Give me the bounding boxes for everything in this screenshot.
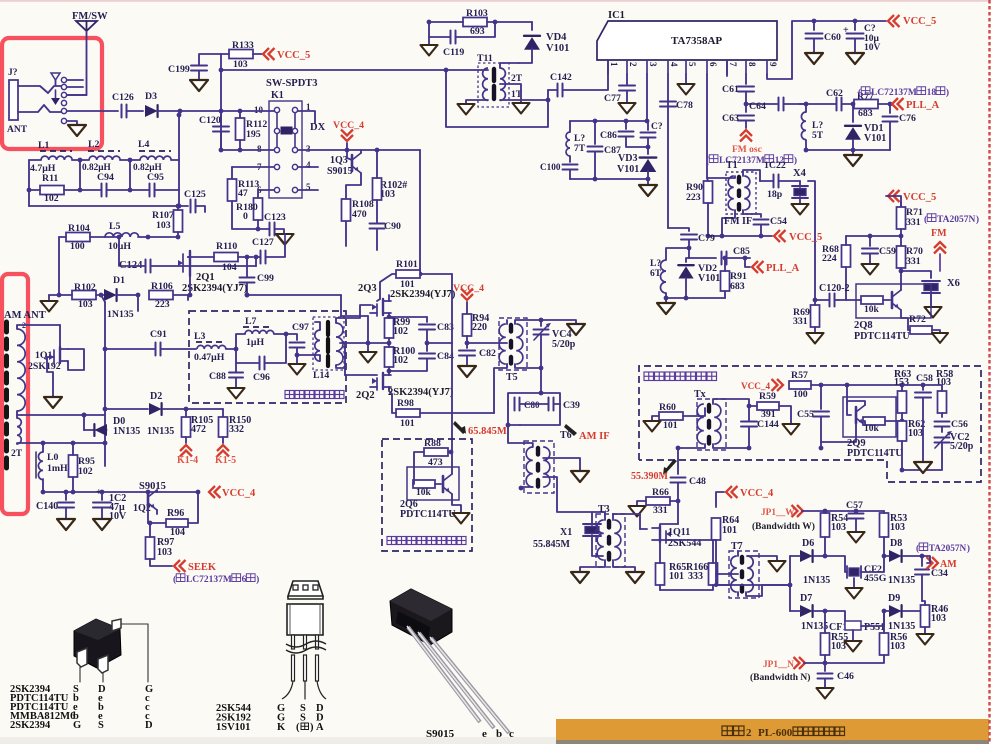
resistor R104 bbox=[59, 223, 90, 295]
transistor 1Q2 S9015 bbox=[133, 481, 166, 522]
svg-text:1: 1 bbox=[609, 62, 619, 67]
diode D6 bbox=[790, 538, 830, 586]
resistor R96 bbox=[166, 490, 200, 538]
wire pin8 node to right bbox=[746, 103, 777, 105]
svg-text:TA2057N: TA2057N bbox=[937, 215, 975, 225]
svg-text:6: 6 bbox=[708, 62, 718, 67]
svg-text:L?: L? bbox=[650, 259, 661, 269]
inductor L5 bbox=[90, 221, 178, 252]
wire R102 row to x105 bbox=[101, 295, 105, 302]
svg-text:1N135: 1N135 bbox=[888, 575, 915, 586]
resistor R102 bbox=[40, 282, 96, 311]
transformer Tx bbox=[678, 389, 749, 450]
wire VC4 node down bbox=[539, 368, 544, 395]
svg-text:TA7358AP: TA7358AP bbox=[671, 35, 722, 47]
svg-text:R110: R110 bbox=[216, 241, 237, 252]
AM antenna coil upper bbox=[17, 321, 60, 415]
capacitor C86 bbox=[600, 121, 650, 149]
svg-text:(: ( bbox=[706, 155, 709, 166]
svg-text:C56: C56 bbox=[951, 419, 968, 430]
TO-92 3D package (S9015) bbox=[390, 589, 452, 645]
transistor 2Q6 block bbox=[407, 452, 470, 523]
svg-text:): ) bbox=[946, 87, 949, 98]
svg-text:1N135: 1N135 bbox=[147, 426, 174, 437]
variable capacitor VC4 bbox=[534, 320, 576, 370]
resistor R62 bbox=[898, 419, 926, 472]
package pin table right bbox=[216, 703, 324, 733]
svg-text:V101: V101 bbox=[546, 43, 569, 54]
label shield box B (chinese) bbox=[387, 537, 466, 545]
resistor R59 bbox=[749, 391, 800, 434]
svg-text:2: 2 bbox=[746, 727, 752, 739]
svg-text:S9015: S9015 bbox=[139, 481, 166, 492]
svg-text:VCC_4: VCC_4 bbox=[222, 488, 256, 499]
ground (box C) bbox=[914, 462, 932, 473]
transistor 2Q3 bbox=[370, 295, 391, 319]
svg-text:7: 7 bbox=[728, 62, 738, 67]
capacitor C85 bbox=[689, 246, 750, 265]
TO-92 package body bbox=[287, 604, 323, 635]
capacitor C58 bbox=[902, 373, 933, 472]
transistor 2Q9 block bbox=[821, 385, 902, 442]
svg-text:331: 331 bbox=[793, 316, 808, 327]
svg-text:X6: X6 bbox=[947, 278, 960, 289]
resistor R102# bbox=[373, 148, 408, 200]
svg-text:455G: 455G bbox=[864, 573, 887, 584]
capacitor C142 bbox=[548, 60, 608, 97]
svg-text:C90: C90 bbox=[384, 221, 401, 232]
capacitor C120-2 bbox=[813, 283, 850, 307]
wire C83/C84 node to 65.845M line bbox=[427, 274, 452, 343]
transistor 2Q8 block bbox=[838, 284, 931, 327]
power VCC_4 (1Q2) bbox=[209, 486, 256, 499]
svg-text:L?: L? bbox=[812, 121, 823, 131]
transformer T11 bbox=[477, 53, 523, 107]
wire AM mid rail bbox=[41, 413, 108, 446]
svg-text:C85: C85 bbox=[733, 246, 750, 257]
wire lower rail to VCC bbox=[43, 490, 198, 495]
svg-text:683: 683 bbox=[858, 108, 873, 119]
svg-text:C126: C126 bbox=[112, 92, 134, 103]
red highlight box (AM ANT rod) bbox=[2, 274, 28, 514]
resistor R99 bbox=[385, 317, 411, 345]
svg-text:PDTC114TU: PDTC114TU bbox=[847, 448, 903, 459]
wire filter mid rail bbox=[27, 160, 179, 206]
capacitor C80 bbox=[508, 393, 548, 411]
label 2SK2394(YJ7) lower bbox=[388, 387, 454, 398]
svg-text:L4: L4 bbox=[138, 139, 150, 150]
label 2Q6 bbox=[400, 499, 456, 520]
wire R166 top to T7 bbox=[713, 539, 716, 541]
svg-text:C95: C95 bbox=[147, 172, 164, 183]
svg-text:ANT: ANT bbox=[7, 125, 28, 135]
svg-text:D9: D9 bbox=[888, 593, 900, 604]
resistor R53 bbox=[880, 511, 908, 558]
TO-92 3D leads bbox=[407, 626, 509, 733]
inductor L? 6T bbox=[650, 248, 689, 298]
resistor R68 bbox=[822, 236, 851, 300]
capacitor C56 bbox=[935, 419, 968, 432]
svg-text:10: 10 bbox=[254, 105, 264, 115]
svg-text:G: G bbox=[73, 720, 81, 731]
svg-text:C61: C61 bbox=[722, 84, 739, 95]
wire VD2 bottom rail + ground bbox=[657, 296, 725, 314]
svg-text:K1: K1 bbox=[271, 90, 284, 101]
IC1 pin numbers bbox=[609, 62, 778, 67]
wire vertical junction line x105 bbox=[103, 302, 108, 466]
inductor L2 bbox=[82, 139, 120, 173]
svg-text:R59: R59 bbox=[759, 391, 776, 402]
svg-text:S9015: S9015 bbox=[327, 166, 353, 177]
svg-text:223: 223 bbox=[155, 299, 170, 310]
capacitor C144 bbox=[741, 404, 779, 451]
power VCC_5 (top right) bbox=[888, 15, 936, 27]
svg-text:R98: R98 bbox=[397, 398, 414, 409]
svg-text:1μH: 1μH bbox=[246, 337, 264, 348]
wire 2Q1 gate bbox=[188, 256, 190, 258]
svg-text:C60: C60 bbox=[824, 32, 841, 43]
label LC72137M-6 (chinese) bbox=[173, 574, 259, 585]
svg-text:R11: R11 bbox=[42, 173, 58, 184]
svg-text:C46: C46 bbox=[837, 671, 854, 682]
net K1-5 bbox=[215, 445, 236, 466]
AM antenna coil lower bbox=[11, 415, 105, 459]
svg-text:2: 2 bbox=[628, 62, 638, 67]
svg-text:2Q8: 2Q8 bbox=[854, 320, 873, 331]
svg-text:1Q3: 1Q3 bbox=[330, 155, 348, 166]
capacitor C55 bbox=[797, 385, 829, 450]
svg-text:): ) bbox=[967, 543, 970, 554]
transformer T6 bbox=[519, 441, 592, 512]
svg-text:3: 3 bbox=[648, 62, 658, 67]
svg-text:1N135: 1N135 bbox=[888, 621, 915, 632]
wire filter bottom rail bbox=[29, 190, 181, 208]
capacitor C34 bbox=[915, 556, 948, 601]
svg-text:AM IF: AM IF bbox=[579, 431, 610, 442]
switch SW-SPDT3 label bbox=[266, 78, 318, 89]
diode VD4 V101 bbox=[519, 22, 569, 63]
svg-text:C?: C? bbox=[651, 122, 663, 132]
svg-text:103: 103 bbox=[831, 641, 846, 652]
capacitor C88 bbox=[209, 363, 245, 398]
inductor L? 5T bbox=[800, 104, 824, 152]
capacitor C95 bbox=[147, 172, 164, 197]
capacitor C127 bbox=[252, 234, 294, 264]
svg-text:PL-600: PL-600 bbox=[758, 727, 793, 739]
wire IC1 pin6 down bbox=[706, 74, 708, 178]
svg-text:5: 5 bbox=[687, 62, 697, 67]
svg-text:): ) bbox=[976, 214, 979, 225]
svg-text:L14: L14 bbox=[313, 370, 329, 381]
resistor R46 bbox=[916, 601, 948, 644]
resistor R110 bbox=[188, 241, 258, 273]
svg-text:FM osc: FM osc bbox=[732, 145, 762, 155]
resistor R71 bbox=[897, 207, 923, 247]
svg-text:R96: R96 bbox=[167, 508, 184, 519]
svg-text:10V: 10V bbox=[864, 43, 881, 53]
capacitor C120 bbox=[199, 111, 229, 150]
wire main line down bbox=[219, 54, 224, 150]
svg-text:R101: R101 bbox=[396, 259, 418, 270]
svg-text:C78: C78 bbox=[676, 100, 693, 111]
IC1 pin stubs bbox=[608, 60, 767, 74]
svg-text:6T: 6T bbox=[650, 269, 662, 279]
svg-text:V101: V101 bbox=[864, 133, 886, 144]
variable capacitor VC2 bbox=[902, 431, 974, 470]
svg-text:0: 0 bbox=[243, 211, 248, 222]
shield box B dashed outline bbox=[382, 439, 472, 551]
svg-text:2SK2394(YJ7): 2SK2394(YJ7) bbox=[388, 387, 454, 398]
svg-text:1mH: 1mH bbox=[47, 463, 68, 474]
svg-text:VCC_4: VCC_4 bbox=[741, 381, 770, 391]
wire IC1 pin7 stub bbox=[726, 60, 728, 76]
power VCC_5 (R71) bbox=[886, 190, 936, 207]
capacitor C76 bbox=[883, 104, 916, 150]
transformer T3 bbox=[571, 504, 644, 583]
svg-text:9: 9 bbox=[768, 62, 778, 67]
ground (R99/R100 node) bbox=[340, 341, 389, 363]
resistor R90 bbox=[686, 178, 713, 236]
net JP1__N bbox=[750, 657, 825, 683]
svg-text:1SV101: 1SV101 bbox=[216, 722, 250, 733]
svg-text:7T: 7T bbox=[574, 144, 586, 154]
capacitor C61 bbox=[722, 74, 754, 106]
svg-text:X4: X4 bbox=[793, 168, 807, 179]
svg-text:1Q11: 1Q11 bbox=[668, 527, 690, 538]
label TA2057N (chinese upper) bbox=[924, 214, 979, 225]
svg-text:10k: 10k bbox=[864, 424, 880, 434]
svg-text:104: 104 bbox=[222, 262, 237, 273]
wire bridge left vertical bbox=[716, 556, 792, 611]
svg-text:C125: C125 bbox=[184, 189, 206, 200]
net PLL_A (top) bbox=[892, 98, 940, 111]
svg-text:6: 6 bbox=[242, 575, 247, 585]
svg-text:K1-4: K1-4 bbox=[177, 455, 198, 466]
capacitor C59 bbox=[861, 236, 896, 274]
package pin table left bbox=[10, 684, 153, 731]
svg-text:): ) bbox=[794, 155, 797, 166]
svg-text:332: 332 bbox=[229, 424, 244, 435]
resistor R54 bbox=[821, 511, 849, 558]
ground (IC1 pin5) bbox=[677, 74, 694, 94]
svg-text:): ) bbox=[256, 574, 259, 585]
label DX bbox=[310, 122, 326, 133]
svg-text:C97: C97 bbox=[292, 322, 309, 333]
svg-text:55.845M: 55.845M bbox=[533, 539, 571, 550]
caption text (chinese) bbox=[722, 726, 845, 739]
inductor L4 bbox=[133, 139, 171, 173]
capacitor C97 bbox=[286, 322, 315, 374]
SOT-23 package drawing bbox=[74, 619, 121, 673]
svg-text:C127: C127 bbox=[252, 237, 274, 248]
svg-text:L1: L1 bbox=[38, 140, 50, 151]
svg-text:C120-2: C120-2 bbox=[819, 283, 850, 294]
svg-text:C76: C76 bbox=[899, 113, 916, 124]
svg-text:102: 102 bbox=[393, 355, 408, 366]
inductor L0 bbox=[36, 443, 68, 494]
wire T3 to 1Q11 gate bbox=[613, 514, 647, 529]
svg-text:DX: DX bbox=[310, 122, 326, 133]
svg-text:(: ( bbox=[173, 574, 176, 585]
svg-text:L7: L7 bbox=[245, 316, 257, 327]
ferrite rod (AM antenna core) bbox=[4, 322, 9, 468]
capacitor C46 bbox=[816, 663, 854, 698]
resistor R65 bbox=[656, 542, 687, 590]
svg-text:C57: C57 bbox=[846, 500, 863, 511]
svg-text:C79: C79 bbox=[698, 233, 715, 244]
svg-text:C64: C64 bbox=[749, 101, 766, 112]
switch K1 bbox=[254, 90, 311, 198]
svg-text:VD3: VD3 bbox=[618, 153, 637, 164]
svg-text:103: 103 bbox=[78, 299, 93, 310]
label shield box A (chinese) bbox=[285, 391, 344, 399]
svg-text:C144: C144 bbox=[757, 419, 779, 430]
svg-text:T5: T5 bbox=[506, 372, 518, 383]
svg-text:IC1: IC1 bbox=[608, 10, 625, 21]
power VCC_4 (1Q3) bbox=[333, 120, 364, 150]
diode D0 bbox=[82, 413, 141, 437]
diode VD2 V101 bbox=[678, 248, 720, 298]
wire K1 pin3 to right bbox=[298, 150, 422, 276]
wire X4 vertical continues bbox=[845, 299, 847, 301]
wire K1 pin1 right stub bbox=[298, 111, 315, 123]
shield box C dashed outline bbox=[639, 366, 981, 482]
svg-text:(: ( bbox=[296, 722, 300, 733]
wire pin4 to C79 bbox=[668, 228, 689, 231]
resistor R94 bbox=[463, 313, 490, 345]
resistor R97 bbox=[146, 523, 175, 566]
svg-text:224: 224 bbox=[822, 253, 837, 264]
svg-text:VCC_5: VCC_5 bbox=[277, 50, 310, 61]
svg-text:D8: D8 bbox=[890, 538, 902, 549]
antenna FM/SW bbox=[72, 11, 108, 31]
svg-text:S9015: S9015 bbox=[426, 728, 455, 740]
wire main horizontal to T11 bbox=[221, 69, 446, 71]
capacitor C90 bbox=[370, 200, 401, 250]
svg-text:331: 331 bbox=[653, 505, 668, 516]
svg-text:b: b bbox=[496, 728, 502, 740]
svg-text:103: 103 bbox=[831, 522, 846, 533]
capacitor 1C2 electrolytic bbox=[93, 487, 127, 530]
capacitor C? electrolytic bbox=[843, 21, 881, 64]
capacitor C100 bbox=[540, 162, 578, 179]
wire R71 node left to R68 bbox=[846, 234, 901, 239]
resistor R57 bbox=[789, 370, 904, 400]
svg-text:SEEK: SEEK bbox=[188, 562, 217, 573]
resistor R64 bbox=[712, 515, 740, 587]
net JP1__W bbox=[752, 505, 884, 532]
svg-text:102: 102 bbox=[44, 193, 59, 204]
svg-text:JP1__W: JP1__W bbox=[761, 508, 795, 518]
svg-text:VCC_5: VCC_5 bbox=[789, 232, 822, 243]
resistor R95 bbox=[69, 443, 95, 494]
svg-text:(Bandwidth N): (Bandwidth N) bbox=[750, 672, 810, 683]
resistor R107 bbox=[152, 204, 183, 240]
svg-text:C96: C96 bbox=[253, 372, 270, 383]
resistor R180 bbox=[236, 190, 274, 222]
label 2SK2394(YJ7) upper bbox=[390, 289, 456, 300]
red highlight box (FM/SW antenna jack) bbox=[2, 38, 102, 149]
wire IC1 pin3 down bbox=[646, 74, 648, 121]
net FM osc bbox=[732, 130, 762, 155]
resistor R72 bbox=[908, 314, 948, 343]
svg-text:55.390M: 55.390M bbox=[631, 471, 669, 482]
resistor R106 bbox=[136, 281, 188, 311]
svg-text:10V: 10V bbox=[109, 511, 127, 522]
wire R106 to 2Q2/2Q3 block bbox=[188, 293, 368, 343]
net AM output bbox=[927, 557, 958, 570]
svg-text:8: 8 bbox=[747, 62, 757, 67]
svg-text:103: 103 bbox=[157, 547, 172, 558]
resistor R113 bbox=[228, 167, 275, 201]
wire into K1 pin10 bbox=[221, 109, 274, 114]
capacitor C77 bbox=[604, 74, 636, 113]
resistor R69 bbox=[793, 300, 824, 343]
resistor R101 bbox=[380, 259, 452, 299]
svg-text:D6: D6 bbox=[802, 538, 814, 549]
capacitor C78 bbox=[660, 74, 693, 228]
svg-text:331: 331 bbox=[906, 217, 921, 228]
wire L14 to 2Q3 bbox=[345, 305, 371, 318]
power VCC_4 (R94) bbox=[453, 283, 484, 314]
svg-text:T1: T1 bbox=[726, 160, 738, 171]
capacitor C79 bbox=[681, 233, 715, 250]
capacitor C96 bbox=[236, 334, 286, 383]
svg-text:+: + bbox=[843, 25, 849, 36]
svg-text:C48: C48 bbox=[689, 476, 706, 487]
power VCC_5 (R133) bbox=[253, 48, 310, 61]
diode D8 bbox=[884, 538, 924, 586]
svg-text:693: 693 bbox=[470, 26, 485, 37]
wire T11 primary bbox=[444, 68, 488, 115]
svg-text:65.845M: 65.845M bbox=[468, 426, 507, 437]
capacitor C123 bbox=[232, 201, 292, 244]
svg-text:J?: J? bbox=[8, 68, 18, 78]
svg-text:4: 4 bbox=[669, 62, 679, 67]
crystal X6 bbox=[901, 271, 960, 317]
svg-text:8: 8 bbox=[257, 144, 262, 154]
label 2Q9 bbox=[847, 438, 903, 459]
svg-text:10k: 10k bbox=[416, 488, 432, 498]
wire T11 secondary taps bbox=[500, 63, 548, 113]
wire K1 pin8 rail bbox=[219, 148, 274, 153]
resistor R56 bbox=[825, 611, 907, 663]
svg-text:5/20p: 5/20p bbox=[552, 339, 576, 350]
svg-text:101: 101 bbox=[663, 420, 678, 431]
svg-text:V101: V101 bbox=[617, 164, 639, 175]
svg-text:(: ( bbox=[916, 543, 919, 554]
svg-text:333: 333 bbox=[688, 571, 703, 582]
svg-text:c: c bbox=[509, 728, 514, 740]
capacitor C48 bbox=[671, 448, 706, 503]
svg-text:FM: FM bbox=[931, 228, 947, 239]
svg-text:C63: C63 bbox=[722, 113, 739, 124]
svg-text:3: 3 bbox=[306, 144, 311, 154]
svg-text:101: 101 bbox=[669, 571, 684, 582]
svg-text:C62: C62 bbox=[826, 88, 843, 99]
capacitor C126 bbox=[112, 92, 143, 118]
capacitor C94 bbox=[97, 172, 114, 197]
wire 1Q2 base node bbox=[148, 508, 166, 525]
wire T11 bottom loop bbox=[446, 70, 550, 127]
svg-text:VCC_4: VCC_4 bbox=[740, 488, 774, 499]
svg-text:PLL_A: PLL_A bbox=[766, 263, 800, 274]
diode D7 bbox=[790, 593, 828, 632]
svg-text:TA2057N: TA2057N bbox=[929, 544, 967, 554]
svg-text:C88: C88 bbox=[209, 371, 226, 382]
svg-text:P551: P551 bbox=[864, 622, 885, 633]
svg-text:K: K bbox=[277, 722, 286, 733]
